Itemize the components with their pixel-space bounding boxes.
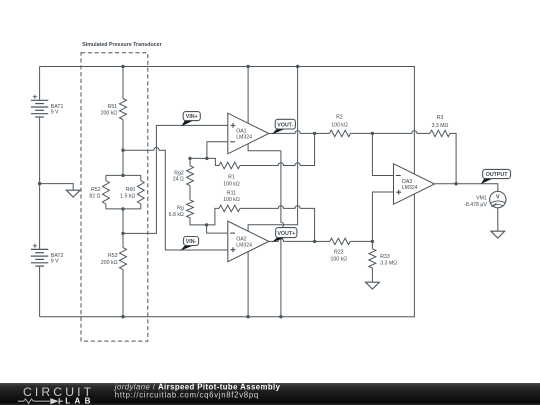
wire ground tap [40, 184, 74, 191]
junction node: OA1 V+ pin / V+ rail [246, 65, 249, 68]
wire top supply rail to OA3 V+ pin [40, 67, 415, 174]
junction node: OA1 inverting input / Rg2 / R1 [205, 157, 208, 160]
resistor R3 3.3 M&#937; [372, 115, 456, 184]
wire OA3 output to voltmeter [435, 184, 498, 192]
wire R2 node to OA3 inverting input [372, 133, 393, 175]
resistor R1 100 k&#937; [207, 158, 240, 187]
resistor R22 100 k&#937; [315, 238, 373, 262]
wire left rail upper [39, 67, 41, 101]
resistor R11 100 k&#937; [219, 190, 240, 211]
svg-text:6.8 kΩ: 6.8 kΩ [169, 212, 184, 218]
ground GND2 (below R33) [366, 282, 380, 289]
label BAT2 9 V [51, 253, 64, 265]
battery BAT2 9 V [31, 244, 48, 266]
svg-text:Rg2: Rg2 [174, 170, 184, 176]
battery BAT1 9 V [31, 95, 48, 117]
wire OA1 V+ pin to top rail [247, 67, 249, 124]
CircuitLab logo [18, 385, 95, 405]
wire R1 right lead to OA1 output node [240, 133, 315, 165]
wire bridge top bracket [106, 174, 141, 176]
wire OA1 noninverting input to node B (VIN+) [123, 125, 228, 233]
wire OA2 output (VOUT+) [268, 239, 314, 242]
wire node A to OA2 noninverting input (VIN-) [123, 147, 228, 250]
footer bar [0, 383, 540, 405]
wire bridge bottom bracket [106, 208, 141, 210]
junction node: OA1 V- wire / V- rail [279, 315, 282, 318]
wire R51 bottom lead [122, 120, 124, 151]
svg-text:3.3 MΩ: 3.3 MΩ [432, 123, 449, 129]
resistor R33 3.3 M&#937; [369, 241, 397, 282]
resistor R2 100 k&#937; [315, 115, 373, 137]
net flag VOUT- [272, 119, 296, 134]
svg-text:VM1: VM1 [476, 195, 487, 201]
junction node: bridge top bracket [121, 174, 124, 177]
svg-text:R3: R3 [437, 115, 444, 121]
resistor R51 200 k&#937; [101, 99, 127, 120]
wire OA1 V- down to bottom rail [281, 151, 284, 317]
svg-text:LM324: LM324 [236, 243, 252, 249]
wire voltmeter to ground [497, 208, 499, 231]
resistor R53 200 k&#937; [101, 233, 127, 316]
svg-text:OA1: OA1 [236, 128, 246, 134]
junction node A: R51 bottom / bridge top (VIN-) [121, 149, 124, 152]
label BAT1 9 V [51, 104, 64, 116]
svg-text:LM324: LM324 [236, 135, 252, 141]
wire OA2 V- pin to bottom rail [247, 251, 249, 316]
svg-text:R33: R33 [380, 254, 390, 260]
wire OA1 V- pin [248, 144, 281, 151]
junction node: R22 / R33 / OA3 noninverting input [371, 240, 374, 243]
svg-text:100 kΩ: 100 kΩ [223, 181, 240, 187]
svg-text:V: V [496, 194, 500, 200]
dashed box: Simulated Pressure Transducer [81, 53, 148, 341]
svg-text:OA3: OA3 [402, 179, 412, 185]
op-amp OA2 LM324 [228, 221, 269, 262]
junction node: bridge bottom bracket [121, 207, 124, 210]
svg-text:http://circuitlab.com/cq6vjn8f: http://circuitlab.com/cq6vjn8f2v8pq [115, 390, 259, 399]
svg-text:200 kΩ: 200 kΩ [101, 111, 118, 117]
svg-text:Rg: Rg [177, 206, 184, 212]
svg-text:R1: R1 [228, 175, 235, 181]
svg-text:LM324: LM324 [402, 185, 418, 191]
svg-text:-8.478 µV: -8.478 µV [464, 202, 487, 208]
resistor R60 1.5 k&#937; [120, 175, 144, 209]
svg-text:9 V: 9 V [51, 110, 59, 116]
wire junction to OA2 inverting input [207, 225, 228, 233]
wire OA1 inverting input to Rg2 top [190, 142, 228, 159]
voltmeter VM1 [464, 191, 506, 207]
junction node: R2 / R3 / OA3 inverting input [371, 132, 374, 135]
svg-text:24 Ω: 24 Ω [173, 177, 184, 183]
svg-text:R52: R52 [91, 187, 101, 193]
svg-text:100 kΩ: 100 kΩ [331, 122, 348, 128]
svg-text:Simulated Pressure Transducer: Simulated Pressure Transducer [82, 42, 162, 48]
svg-text:9 V: 9 V [51, 259, 59, 265]
svg-text:100 kΩ: 100 kΩ [223, 197, 240, 203]
wire R11 right lead to OA2 output node [240, 206, 315, 242]
wire left rail lower [39, 266, 41, 316]
junction node: OA2 V- pin / V- rail [246, 315, 249, 318]
wire R51 top lead [122, 67, 124, 99]
wire left rail middle [39, 117, 41, 249]
net flag VIN+ [181, 112, 200, 127]
op-amp OA3 LM324 [394, 164, 435, 205]
footer text [114, 383, 281, 400]
wire OA3 noninverting input to R22/R33 node [372, 192, 393, 241]
wire OA2 V+ pin to top rail [248, 67, 298, 232]
junction node: OA2 inverting input / Rg / R11 [205, 223, 208, 226]
junction node: battery midpoint / ground tap [38, 182, 41, 185]
wire Rg2 to Rg [189, 186, 191, 200]
wire OA1 output (VOUT-) [269, 131, 315, 134]
label OA3 LM324 [402, 179, 418, 191]
svg-text:OA2: OA2 [236, 236, 246, 242]
svg-text:1.5 kΩ: 1.5 kΩ [120, 194, 135, 200]
svg-text:R51: R51 [108, 104, 118, 110]
svg-text:200 kΩ: 200 kΩ [101, 260, 118, 266]
ground GND3 (below VM1) [491, 231, 505, 238]
svg-text:VOUT+: VOUT+ [277, 231, 295, 237]
svg-text:R22: R22 [334, 249, 344, 255]
junction node: Rg2 top terminal [188, 157, 191, 160]
wire Rg bottom to R11 left lead [190, 208, 219, 225]
wire bridge bottom to node B [122, 209, 124, 234]
junction node B: bridge bottom / R53 top (VIN+) [121, 232, 124, 235]
junction node: R3 / OA3 output [454, 182, 457, 185]
label OA2 LM324 [236, 236, 252, 248]
svg-text:VOUT-: VOUT- [277, 122, 293, 128]
wire node A down to bridge top [122, 150, 124, 175]
svg-text:R60: R60 [126, 187, 136, 193]
net flag VOUT+ [272, 228, 297, 243]
svg-text:R11: R11 [227, 190, 236, 196]
resistor Rg 6.8 k&#937; [169, 200, 194, 218]
svg-text:3.3 MΩ: 3.3 MΩ [380, 261, 397, 267]
svg-text:OUTPUT: OUTPUT [486, 172, 509, 178]
svg-text:R53: R53 [108, 253, 118, 259]
resistor R52 82 &#937; [89, 175, 109, 209]
svg-text:82 Ω: 82 Ω [89, 194, 100, 200]
wire bottom supply rail to OA3 V- pin [40, 194, 415, 317]
resistor Rg2 24 &#937; [173, 158, 194, 185]
junction node: OA1 output / R1 / R2 (VOUT-) [313, 132, 316, 135]
net flag OUTPUT [481, 169, 511, 184]
svg-text:LAB: LAB [65, 396, 95, 405]
junction node: OA2 output / R11 / R22 (VOUT+) [313, 240, 316, 243]
op-amp OA1 LM324 [228, 113, 269, 154]
svg-text:VIN+: VIN+ [186, 114, 198, 120]
net flag VIN- [180, 237, 199, 251]
junction node: R53 bottom / V- rail [121, 315, 124, 318]
junction node: OA2 V+ pin / V+ rail [296, 65, 299, 68]
ground GND1 (battery midpoint) [66, 190, 80, 197]
label OA1 LM324 [236, 128, 252, 140]
svg-text:R2: R2 [336, 115, 343, 121]
junction node: R51 top / V+ rail [121, 65, 124, 68]
svg-text:VIN-: VIN- [186, 239, 197, 245]
svg-text:100 kΩ: 100 kΩ [331, 256, 348, 262]
